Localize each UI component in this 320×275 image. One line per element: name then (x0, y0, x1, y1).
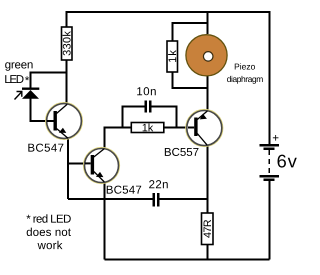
resistor 330k (62, 27, 73, 60)
label 10n (137, 87, 156, 95)
resistor 1k vertical (167, 41, 178, 72)
wire 10n left branch (123, 107, 145, 128)
label BC547 Q2 (107, 186, 141, 194)
label 22n (149, 180, 168, 188)
wire 1k bottom connector (172, 72, 207, 88)
wire bottom-left horizontal to 22n (68, 198, 152, 200)
wire BC557 collector down to 47R (206, 145, 208, 213)
battery plus sign (273, 135, 279, 141)
wire Q1 emitter down (67, 138, 69, 200)
battery 6v (260, 145, 280, 179)
label green LED (5, 62, 32, 71)
transistor Q2 BC547 (84, 148, 120, 184)
wire 47R bottom (207, 244, 209, 259)
wire Q2 emitter down to bottom rail (103, 182, 105, 259)
label BC557 (165, 148, 199, 156)
wire 1k top connector (172, 23, 207, 41)
transistor Q3 BC557 (186, 110, 223, 147)
LED green (22, 89, 39, 99)
wire bottom rail (104, 258, 269, 260)
wire battery minus down (268, 181, 270, 260)
capacitor 10n (146, 101, 151, 113)
wire piezo to BC557 emitter (207, 75, 209, 111)
label BC547 Q1 (28, 144, 63, 152)
wire LED top connector (30, 73, 66, 88)
wire 330k bottom to Q1 collector (66, 60, 68, 105)
wire 1k right to BC557 base (164, 127, 195, 129)
note red LED does not work (26, 214, 70, 222)
wire Q2 collector up (104, 128, 131, 149)
wire LED anode to Q1 base (30, 99, 47, 122)
wire 22n right to 47R node (160, 198, 208, 200)
capacitor 22n (154, 193, 159, 207)
wire Q1 emitter to Q2 base (68, 162, 85, 164)
transistor Q1 BC547 (46, 103, 83, 140)
LED arrow pointer (15, 92, 22, 100)
resistor 47R (202, 213, 214, 245)
wire top rail (67, 12, 270, 144)
wire 10n right branch (152, 107, 177, 128)
piezo diaphragm (186, 35, 227, 76)
resistor 1k horizontal (131, 123, 164, 133)
wire piezo feed (207, 12, 209, 34)
label Piezo diaphragm (235, 63, 255, 69)
label 6v (278, 155, 297, 168)
